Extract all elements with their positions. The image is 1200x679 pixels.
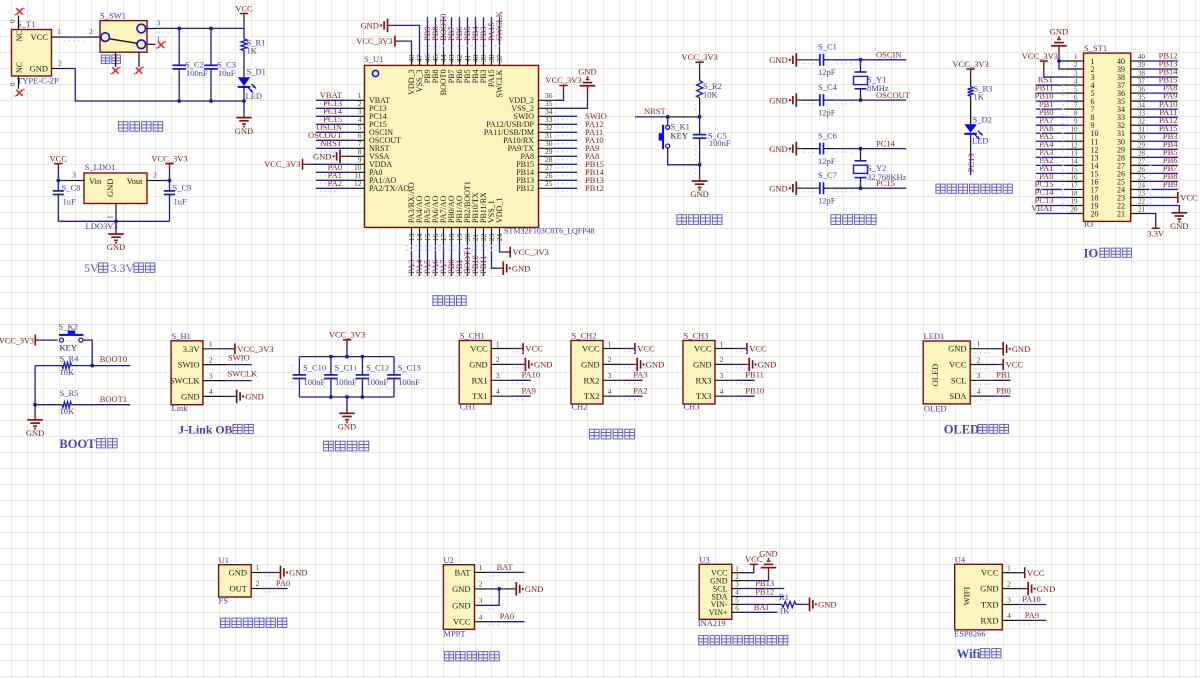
- svg-text:12: 12: [1071, 141, 1079, 149]
- svg-text:VCC: VCC: [949, 360, 967, 370]
- svg-text:PB11: PB11: [745, 370, 764, 380]
- CH1 pin 1 VCC: [470, 339, 511, 353]
- net label PA10: [511, 370, 540, 384]
- svg-text:11: 11: [1071, 133, 1078, 141]
- CH3 pin 4 TX3: [696, 387, 735, 401]
- header right pin 38: [1117, 67, 1178, 82]
- mcu pin 16 PA6/AO: [430, 196, 440, 276]
- power port VCC_3V3 jlink: [227, 343, 274, 354]
- capacitor C11 100nF filter: [324, 357, 357, 397]
- svg-text:RX1: RX1: [472, 375, 488, 385]
- svg-text:VCC: VCC: [50, 153, 68, 163]
- ground GND CH2: [623, 358, 664, 372]
- svg-text:S_R4: S_R4: [60, 353, 80, 363]
- ground GND mcu top left: [360, 19, 395, 33]
- svg-text:S_C1: S_C1: [818, 42, 837, 52]
- svg-text:S_C4: S_C4: [818, 82, 838, 92]
- svg-text:J-Link OB: J-Link OB: [178, 423, 232, 437]
- title IO拓展口: [1084, 247, 1132, 261]
- mcu U1 STM32F103C8T6: [364, 54, 595, 236]
- module U3 INA219: [698, 555, 732, 628]
- capacitor C13 100nF filter: [387, 357, 421, 397]
- svg-text:5: 5: [1074, 85, 1078, 93]
- mcu pin 31 PA10/RX: [503, 131, 603, 145]
- svg-text:1: 1: [106, 215, 115, 219]
- svg-text:GND: GND: [469, 359, 487, 369]
- CH2 pin 4 TX2: [584, 387, 623, 401]
- net label PA3: [623, 370, 648, 384]
- svg-text:27: 27: [1138, 158, 1146, 166]
- U2 pin 1 BAT: [454, 563, 486, 577]
- svg-text:NC: NC: [15, 30, 24, 41]
- title 串口电路: [589, 429, 599, 439]
- svg-text:3: 3: [479, 596, 483, 605]
- U1 pin2 OUT net PA0: [230, 578, 291, 593]
- svg-text:19: 19: [1071, 198, 1079, 206]
- svg-text:100nF: 100nF: [398, 377, 420, 387]
- mcu pin 18 PB0/AO: [446, 195, 456, 276]
- svg-text:SWCLK: SWCLK: [494, 10, 504, 41]
- header right pin 33: [1117, 107, 1178, 122]
- svg-text:25: 25: [1138, 174, 1146, 182]
- header left pin 12: [1036, 139, 1099, 154]
- title 晶振电路: [831, 215, 841, 225]
- svg-text:GND: GND: [769, 55, 787, 65]
- connector CH1: [459, 330, 491, 411]
- header left pin 1: [1067, 53, 1095, 66]
- net label BAT U2: [486, 562, 525, 576]
- svg-text:10: 10: [1071, 125, 1079, 133]
- svg-text:BAT: BAT: [497, 562, 514, 572]
- mcu pin 4 PC15: [316, 114, 387, 129]
- svg-text:1: 1: [479, 563, 483, 572]
- mcu pin 7 NRST: [316, 138, 390, 153]
- mcu pin 22 PB11/RX: [478, 192, 488, 276]
- svg-text:40: 40: [1138, 53, 1146, 61]
- svg-text:4: 4: [977, 387, 981, 396]
- power port VCC_3V3 mcu top right: [545, 75, 581, 99]
- net label PA10 U4: [1017, 594, 1046, 608]
- header left pin 3: [1067, 69, 1095, 82]
- pushbutton K1 KEY: [659, 117, 700, 165]
- svg-text:FS: FS: [219, 596, 229, 606]
- capacitor S_C6 12pF: [802, 130, 906, 166]
- header left pin 11: [1036, 131, 1098, 146]
- mcu pin 40 PB4: [470, 17, 480, 83]
- svg-text:TX2: TX2: [584, 391, 600, 401]
- svg-text:VCC_3V3: VCC_3V3: [545, 75, 581, 85]
- svg-text:13: 13: [1071, 150, 1079, 158]
- mcu pin 36 VDD_2: [509, 91, 564, 105]
- SW1 bottom pins no-connect: [110, 52, 144, 74]
- header left pin 6: [1035, 91, 1095, 106]
- U3 pin 4 SDA: [711, 589, 741, 602]
- capacitor C9 1uF: [164, 181, 192, 222]
- LDO pin3 wire: [56, 171, 84, 183]
- svg-text:12pF: 12pF: [818, 156, 836, 166]
- capacitor C12 100nF filter: [355, 357, 389, 397]
- svg-text:3: 3: [496, 371, 500, 380]
- svg-text:5V: 5V: [84, 261, 99, 275]
- svg-text:BAT: BAT: [754, 602, 771, 612]
- svg-text:0: 0: [9, 82, 17, 86]
- power port VCC CH1: [511, 343, 543, 354]
- U2 pin 2 GND: [452, 580, 486, 594]
- svg-text:39: 39: [1138, 61, 1146, 69]
- capacitor C2 100nF: [172, 28, 208, 101]
- ground GND at S_C7: [769, 181, 802, 195]
- svg-text:GND: GND: [105, 179, 115, 197]
- svg-text:21: 21: [1138, 206, 1146, 214]
- svg-text:S_D1: S_D1: [247, 67, 266, 77]
- svg-text:PB9: PB9: [1163, 179, 1178, 189]
- CH3 pin 2 GND: [693, 355, 735, 369]
- svg-text:14: 14: [1071, 158, 1079, 166]
- svg-text:GND: GND: [769, 144, 787, 154]
- svg-text:VIN+: VIN+: [709, 608, 728, 617]
- svg-text:1: 1: [735, 565, 739, 573]
- mcu pin 2 PC13: [316, 98, 387, 113]
- svg-text:26: 26: [1138, 166, 1146, 174]
- svg-text:VCC: VCC: [637, 344, 655, 354]
- svg-text:37: 37: [495, 54, 504, 62]
- svg-text:VCC_3V3: VCC_3V3: [0, 336, 34, 345]
- jlink pin 3 SWCLK: [170, 371, 227, 385]
- svg-text:1: 1: [209, 340, 213, 349]
- CH1 pin 3 RX1: [472, 371, 511, 385]
- svg-text:GND: GND: [759, 548, 777, 558]
- svg-text:PA0: PA0: [276, 578, 290, 588]
- svg-text:GND: GND: [690, 189, 708, 199]
- svg-text:12pF: 12pF: [818, 67, 836, 77]
- CH3 pin 3 RX3: [695, 371, 734, 385]
- svg-text:1: 1: [256, 563, 260, 572]
- CH1 pin 2 GND: [469, 355, 511, 369]
- header left pin 16: [1036, 171, 1099, 186]
- header left pin 9: [1036, 115, 1095, 130]
- label 开关: [101, 55, 110, 64]
- svg-text:GND: GND: [452, 600, 470, 610]
- mcu pin 12 PA2/TX/AO: [316, 178, 409, 193]
- ground GND LDO: [107, 221, 125, 252]
- svg-text:GND: GND: [693, 359, 711, 369]
- svg-text:TXD: TXD: [981, 600, 998, 610]
- svg-text:GND: GND: [30, 63, 48, 73]
- header ST1 40pin: [1084, 43, 1131, 229]
- mcu pin 33 PA12/USB/DP: [486, 115, 603, 129]
- svg-text:R1: R1: [779, 592, 789, 602]
- svg-text:36: 36: [1138, 85, 1146, 93]
- svg-text:1: 1: [57, 27, 61, 36]
- svg-text:4: 4: [496, 387, 500, 396]
- ground GND CH1: [511, 358, 552, 372]
- svg-text:GND: GND: [534, 360, 552, 370]
- svg-text:2: 2: [153, 171, 157, 180]
- title 5V转3.3V电路: [84, 261, 155, 275]
- svg-text:17: 17: [1071, 182, 1079, 190]
- svg-text:2: 2: [1007, 579, 1011, 588]
- svg-text:2: 2: [1074, 61, 1078, 69]
- svg-text:GND: GND: [1170, 221, 1188, 231]
- net label PA2: [623, 386, 648, 400]
- net label PB11: [735, 370, 764, 384]
- svg-text:U1: U1: [219, 555, 229, 565]
- svg-text:S_CH3: S_CH3: [684, 330, 709, 340]
- mcu pin 5 OSCIN: [316, 122, 393, 137]
- svg-text:100nF: 100nF: [709, 138, 731, 148]
- mcu pin 37 SWCLK: [494, 10, 504, 97]
- svg-text:3: 3: [1007, 595, 1011, 604]
- svg-text:38: 38: [1138, 69, 1146, 77]
- header left pin 20: [1031, 203, 1098, 218]
- resistor R5 10K: [33, 388, 130, 416]
- svg-text:GND: GND: [289, 568, 307, 578]
- header right pin 40: [1117, 51, 1178, 66]
- svg-text:7: 7: [1074, 101, 1078, 109]
- svg-text:Vout: Vout: [127, 176, 144, 186]
- svg-text:3: 3: [608, 371, 612, 380]
- svg-text:S_CH2: S_CH2: [572, 330, 597, 340]
- power port VCC U4: [1017, 567, 1045, 578]
- capacitor C5 100nF: [693, 104, 731, 174]
- title 充放电模块: [444, 652, 453, 661]
- mcu pin 10 PA0: [316, 162, 383, 177]
- net label NRST wire: [635, 106, 701, 119]
- svg-text:SWCLK: SWCLK: [170, 376, 201, 386]
- svg-text:8MHz: 8MHz: [867, 83, 889, 93]
- svg-text:RX3: RX3: [695, 375, 711, 385]
- capacitor C10 100nF filter: [292, 357, 326, 397]
- power port VCC_3V3 boot: [0, 335, 58, 346]
- net label PA9 U4: [1017, 610, 1046, 624]
- svg-text:PA10: PA10: [522, 370, 541, 380]
- svg-text:VCC_3V3: VCC_3V3: [151, 153, 187, 163]
- ghost marks header: [1062, 85, 1064, 213]
- svg-text:4: 4: [735, 589, 739, 597]
- svg-text:3.3V: 3.3V: [183, 344, 201, 354]
- power port VCC U3: [742, 554, 763, 573]
- U2 pin 4 VCC: [453, 613, 486, 627]
- mcu pin 29 PA8: [521, 147, 600, 161]
- mcu pin 26 PB13: [516, 171, 604, 185]
- mcu pin 1 VBAT: [316, 90, 390, 105]
- svg-text:SWIO: SWIO: [228, 353, 250, 363]
- svg-text:GND: GND: [525, 584, 543, 594]
- junction dots power rail: [177, 27, 181, 31]
- header left pin 5: [1035, 83, 1095, 98]
- net label BAT U3: [742, 602, 778, 612]
- header right pin 27: [1117, 155, 1178, 170]
- svg-text:6: 6: [735, 605, 739, 613]
- power port VCC header pin23: [1147, 192, 1199, 203]
- mcu pin 48 VDD_3: [402, 41, 416, 95]
- SW1 pin3 wire to VCC rail: [147, 19, 244, 33]
- svg-text:22: 22: [1138, 198, 1146, 206]
- svg-text:PA9: PA9: [1025, 610, 1039, 620]
- svg-text:INA219: INA219: [698, 618, 726, 628]
- svg-text:18: 18: [1071, 190, 1079, 198]
- svg-text:TX3: TX3: [696, 391, 712, 401]
- svg-text:NRST: NRST: [644, 106, 667, 116]
- svg-text:8: 8: [1074, 109, 1078, 117]
- header right pin 28: [1117, 147, 1178, 162]
- svg-text:1K: 1K: [779, 606, 790, 616]
- svg-text:VCC_3V3: VCC_3V3: [513, 247, 549, 257]
- ground GND U3 top: [742, 548, 778, 580]
- header right pin 22: [1117, 198, 1147, 211]
- svg-text:Vin: Vin: [89, 176, 102, 186]
- power port VCC_3V3 indicator: [966, 68, 974, 70]
- svg-text:2: 2: [89, 27, 93, 36]
- svg-text:PB12: PB12: [585, 183, 604, 193]
- power port VCC oled: [975, 359, 1023, 370]
- svg-text:10K: 10K: [60, 367, 76, 377]
- svg-text:U4: U4: [955, 555, 966, 565]
- mcu pin 44 BOOT0: [438, 14, 448, 96]
- header right pin 32: [1117, 115, 1178, 130]
- resistor R1 1K: [241, 28, 265, 77]
- svg-text:GND: GND: [646, 360, 664, 370]
- U4 pin 4 RXD: [981, 611, 1017, 625]
- svg-text:2: 2: [720, 355, 724, 364]
- header left pin 10: [1036, 123, 1099, 138]
- svg-text:LED1: LED1: [924, 331, 945, 341]
- svg-text:VCC_3V3: VCC_3V3: [681, 52, 717, 62]
- ground GND at S_C1: [769, 53, 802, 67]
- ground GND mcu top right: [578, 67, 596, 99]
- capacitor C8 1uF: [53, 181, 81, 222]
- svg-text:PB12: PB12: [755, 586, 774, 596]
- svg-text:31: 31: [1138, 125, 1146, 133]
- svg-text:GND: GND: [980, 584, 998, 594]
- mcu pin 3 PC14: [316, 106, 387, 121]
- svg-text:2: 2: [608, 355, 612, 364]
- svg-text:GND: GND: [1012, 344, 1030, 354]
- svg-text:10uF: 10uF: [218, 68, 236, 78]
- header right pin 34: [1117, 99, 1178, 114]
- svg-text:16: 16: [1071, 174, 1079, 182]
- svg-text:CH2: CH2: [572, 402, 588, 412]
- bottom wire LDO: [58, 220, 169, 222]
- connector T1 TYPE-C-2P: [9, 16, 59, 89]
- svg-text:PA9: PA9: [522, 386, 536, 396]
- filter bottom rail: [299, 396, 394, 398]
- svg-text:20: 20: [1071, 206, 1079, 214]
- header left pin 2: [1067, 61, 1095, 74]
- title 主芯片: [433, 296, 443, 306]
- ground GND oled: [975, 342, 1030, 356]
- svg-text:BAT: BAT: [454, 567, 471, 577]
- svg-text:VCC_3V3: VCC_3V3: [952, 59, 988, 69]
- svg-text:LED: LED: [246, 91, 263, 101]
- U3 pin 3 SCL: [713, 581, 742, 594]
- title BOOT电路: [59, 437, 117, 451]
- svg-text:VCC_3V3: VCC_3V3: [1022, 51, 1058, 61]
- net label PB13: [742, 578, 785, 588]
- svg-text:1K: 1K: [974, 92, 985, 102]
- svg-text:SWCLK: SWCLK: [495, 69, 504, 97]
- jlink pin 1 3.3V: [183, 340, 227, 354]
- svg-text:OSCIN: OSCIN: [876, 50, 902, 60]
- ground GND CH3: [735, 358, 776, 372]
- connector H1 J-Link: [171, 331, 203, 413]
- svg-text:GND: GND: [769, 95, 787, 105]
- svg-text:PA2: PA2: [633, 386, 647, 396]
- svg-text:GND: GND: [1050, 27, 1068, 37]
- svg-text:1: 1: [977, 340, 981, 349]
- ground GND boot: [26, 405, 44, 438]
- svg-text:PA10: PA10: [1022, 594, 1041, 604]
- svg-text:12pF: 12pF: [818, 196, 836, 206]
- svg-text:4: 4: [608, 387, 612, 396]
- net label SWIO: [227, 353, 252, 365]
- svg-text:23: 23: [1138, 190, 1146, 198]
- oled pin 2 VCC: [949, 355, 994, 369]
- svg-text:6: 6: [1074, 93, 1078, 101]
- mcu pin 34 SWIO: [514, 107, 607, 121]
- title 电压电流检测模块: [699, 636, 708, 645]
- LDO pin2 wire: [147, 171, 171, 183]
- svg-text:3: 3: [735, 581, 739, 589]
- header right pin 24: [1117, 179, 1178, 194]
- svg-text:RXD: RXD: [981, 615, 999, 625]
- capacitor S_C1 12pF: [802, 42, 906, 78]
- U1 pin1 GND: [229, 563, 308, 579]
- svg-text:4: 4: [209, 387, 213, 396]
- svg-text:S_C12: S_C12: [366, 362, 389, 372]
- svg-text:U2: U2: [443, 555, 453, 565]
- crystal S_Y2 32.768KHz: [854, 147, 907, 190]
- net label PA0 U2: [486, 611, 525, 625]
- svg-text:WIFI: WIFI: [962, 587, 972, 606]
- module U2 MPPT: [443, 555, 474, 639]
- oled pin 4 SDA: [949, 387, 994, 401]
- svg-text:OLED: OLED: [924, 404, 947, 414]
- svg-text:SDA: SDA: [949, 391, 967, 401]
- mcu pin 17 PA7/AO: [438, 196, 448, 276]
- mcu pin 39 PB3: [478, 17, 488, 83]
- power port VCC at LDO: [54, 163, 62, 165]
- svg-text:3: 3: [72, 171, 76, 180]
- svg-text:10K: 10K: [60, 406, 76, 416]
- mcu pin 21 PB10/TX: [470, 192, 480, 276]
- header right pin 35: [1117, 91, 1178, 106]
- mcu pin 24 VDD_1: [495, 198, 504, 252]
- svg-text:VCC: VCC: [453, 617, 471, 627]
- header right pin 39: [1117, 59, 1178, 74]
- ground GND filter: [338, 397, 356, 432]
- svg-text:U3: U3: [699, 555, 709, 565]
- svg-text:CH1: CH1: [460, 402, 476, 412]
- svg-text:VCC: VCC: [31, 32, 49, 42]
- svg-text:25: 25: [545, 179, 553, 188]
- connector CH2: [571, 330, 603, 411]
- svg-text:VCC: VCC: [582, 344, 600, 354]
- U4 pin 1 VCC: [981, 564, 1017, 578]
- U2 pin2 pin3 GND tie: [486, 582, 543, 609]
- svg-text:OLED: OLED: [944, 423, 979, 437]
- ground GND jlink: [227, 390, 264, 404]
- svg-text:TYPE-C-2P: TYPE-C-2P: [17, 76, 59, 86]
- svg-text:GND: GND: [818, 600, 836, 610]
- svg-text:37: 37: [1138, 77, 1146, 85]
- mcu pin 45 PB8: [430, 17, 440, 83]
- header left pin 15: [1036, 163, 1099, 178]
- SW1 pin1 no-connect: [147, 35, 166, 49]
- svg-text:SWIO: SWIO: [178, 360, 200, 370]
- svg-text:GND: GND: [338, 422, 356, 432]
- header right pin 23: [1117, 190, 1147, 203]
